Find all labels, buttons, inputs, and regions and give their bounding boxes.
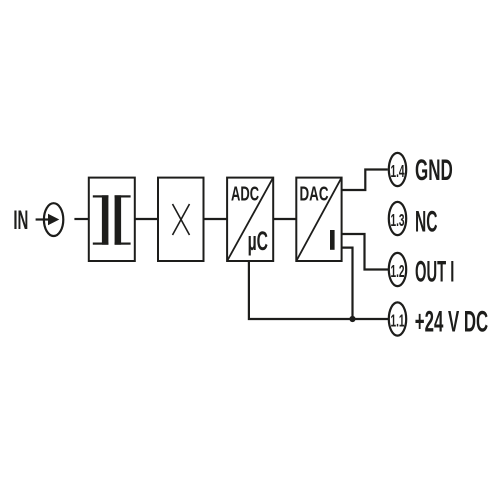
- wire: DAC to terminal 1.2 OUT I: [342, 234, 388, 270]
- svg-text:OUT I: OUT I: [415, 255, 454, 288]
- svg-text:1.4: 1.4: [391, 161, 405, 181]
- input signal source arrow: [36, 203, 64, 236]
- svg-text:IN: IN: [13, 205, 28, 235]
- value label I (current output): [330, 230, 335, 250]
- terminal 1.3: [389, 202, 406, 235]
- wire: DAC to terminal 1.4 GND: [342, 170, 388, 191]
- ADC / microcontroller block U1: [227, 178, 273, 261]
- svg-text:+24 V DC: +24 V DC: [415, 306, 488, 339]
- DAC / current output block U2: [296, 178, 341, 261]
- transformer T1 block: [89, 178, 135, 261]
- junction node on +24V rail: [349, 316, 355, 322]
- svg-text:1.1: 1.1: [391, 311, 405, 331]
- wire: ADC bottom to +24V rail: [249, 261, 388, 319]
- svg-text:DAC: DAC: [300, 183, 329, 205]
- wire: DAC supply to +24V rail: [342, 248, 353, 319]
- terminal 1.1: [389, 302, 406, 335]
- svg-text:1.3: 1.3: [391, 210, 405, 230]
- multiplier block X: [158, 178, 204, 261]
- svg-text:GND: GND: [415, 154, 453, 187]
- wire: transformer to multiplier: [135, 218, 158, 220]
- svg-text:1.2: 1.2: [391, 261, 405, 281]
- wire: source to transformer: [74, 218, 88, 220]
- svg-text:NC: NC: [415, 205, 438, 238]
- wire: ADC to DAC: [273, 218, 296, 220]
- svg-text:ADC: ADC: [231, 183, 259, 205]
- terminal 1.2: [389, 253, 406, 286]
- svg-text:µC: µC: [248, 226, 268, 256]
- wire: multiplier to ADC: [204, 218, 228, 220]
- terminal 1.4: [389, 153, 406, 186]
